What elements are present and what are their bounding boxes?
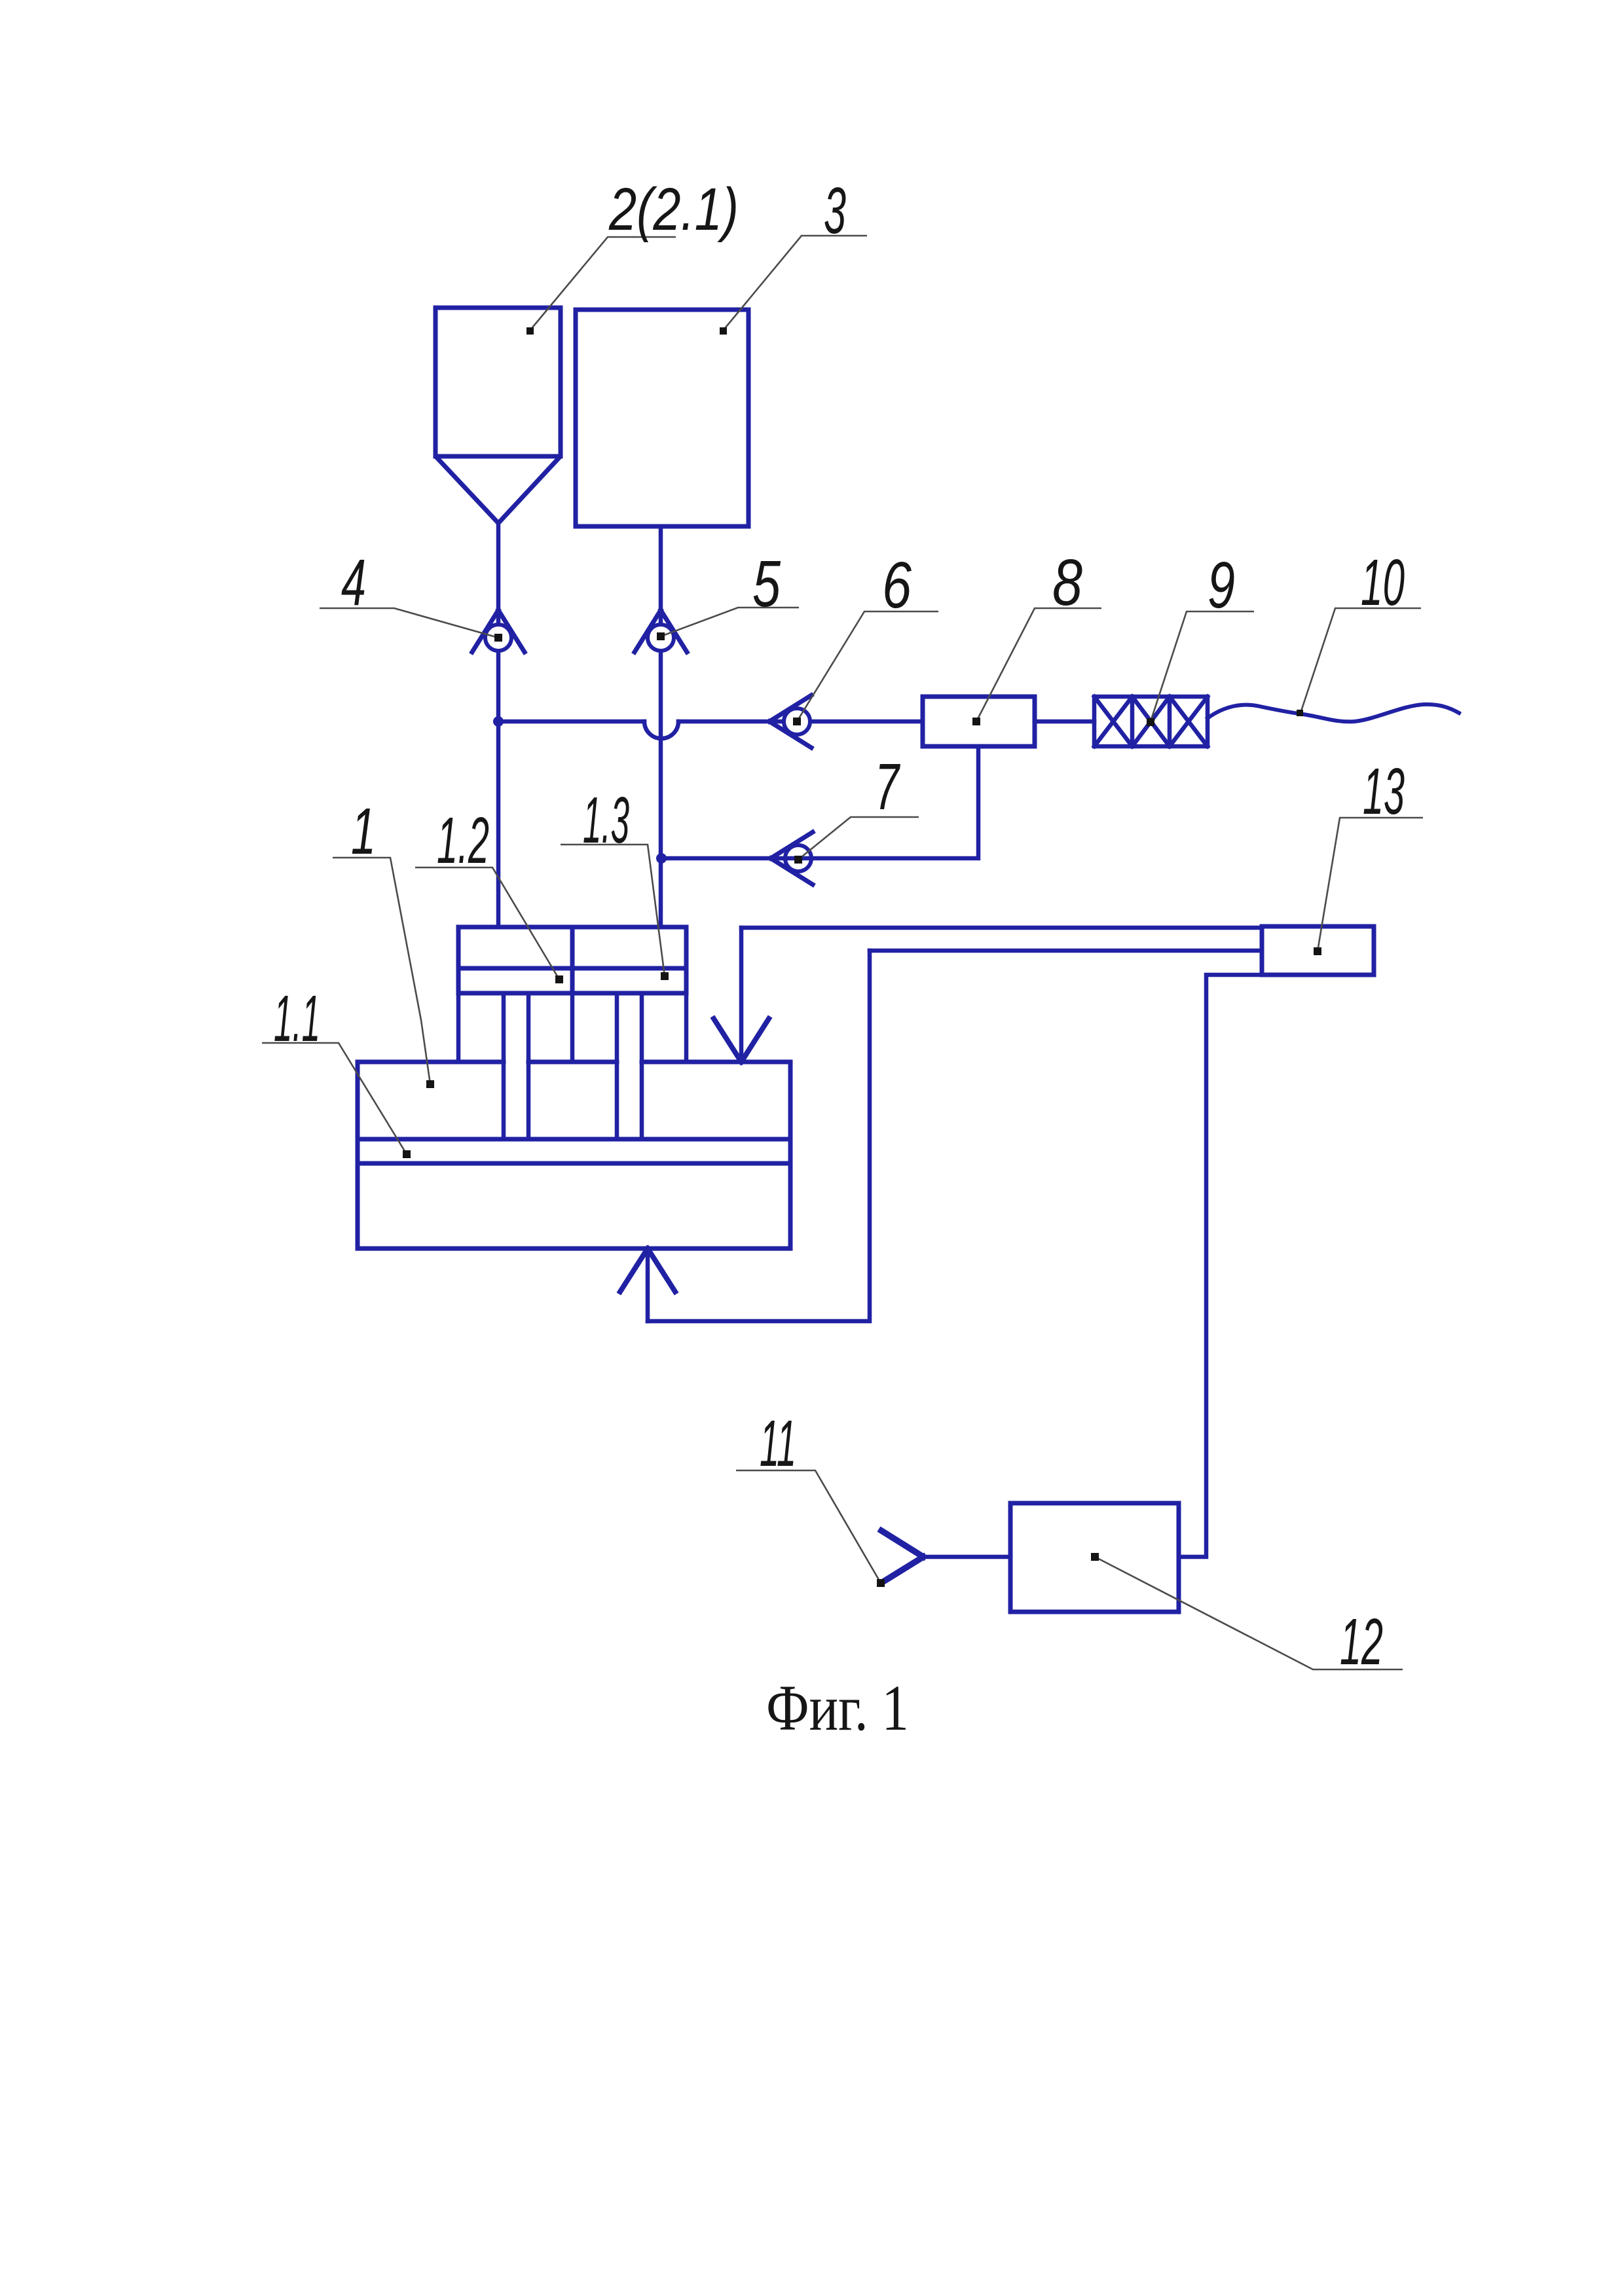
chamber walls	[458, 993, 686, 1062]
defs	[358, 308, 1459, 1612]
svg-text:12: 12	[1340, 1605, 1383, 1679]
leader 2	[530, 237, 676, 331]
leader 9	[1151, 611, 1254, 721]
wire hop over vertical line	[644, 721, 678, 738]
leader 1.3	[561, 845, 665, 976]
svg-text:7: 7	[875, 750, 900, 824]
leader 1.1	[262, 1043, 407, 1154]
piston rod left	[504, 993, 528, 1139]
leader 7	[798, 817, 919, 860]
check valve 4	[472, 610, 525, 652]
svg-text:1.2: 1.2	[437, 804, 489, 877]
check valve 7	[771, 832, 813, 884]
svg-text:Фиг. 1: Фиг. 1	[766, 1671, 909, 1744]
leader 5	[661, 608, 799, 636]
wire	[678, 720, 923, 724]
svg-text:11: 11	[760, 1407, 796, 1480]
svg-text:3: 3	[824, 174, 846, 247]
wire: pump 12 suction line	[923, 1555, 1010, 1559]
check valve 6	[769, 695, 811, 748]
svg-text:2(2.1): 2(2.1)	[608, 176, 739, 243]
flexible line 10 (wavy hose)	[1208, 704, 1459, 721]
wire: top control line to unit 13	[741, 926, 1262, 930]
leader 3	[723, 236, 867, 331]
leader 13	[1318, 818, 1423, 951]
arrowhead down	[714, 1019, 769, 1062]
check valve 5	[635, 610, 687, 652]
wire: hopper outlet down to dispenser left inlet	[496, 523, 501, 927]
wire: unit 8 to filter 9	[1035, 720, 1094, 724]
leader end dots (black squares)	[403, 327, 1321, 1587]
unit 8 (metering box)	[923, 697, 1035, 746]
svg-text:9: 9	[1208, 549, 1235, 622]
leader lines	[262, 236, 1423, 1669]
leader 4	[320, 608, 498, 638]
tank 3	[576, 310, 748, 526]
node A (junction dot)	[493, 716, 504, 727]
svg-text:13: 13	[1363, 755, 1405, 828]
pump 12	[1010, 1503, 1179, 1612]
svg-text:5: 5	[752, 547, 781, 621]
leader 8	[976, 608, 1101, 721]
svg-text:10: 10	[1361, 546, 1405, 619]
wire: unit 13 down to pump 12	[1179, 975, 1262, 1557]
svg-text:4: 4	[341, 546, 366, 619]
leader 1	[333, 858, 430, 1084]
piston rod right	[617, 993, 642, 1139]
wire: lower control loop	[648, 951, 870, 1321]
leader 11	[736, 1470, 881, 1583]
svg-text:1.1: 1.1	[274, 982, 320, 1055]
reference labels	[274, 174, 1405, 1679]
hopper 2 (tank with funnel)	[435, 308, 561, 456]
svg-text:1: 1	[351, 795, 376, 868]
leader 1.2	[415, 867, 559, 979]
control line with down arrow into press	[739, 928, 744, 1062]
wire: middle control line to unit 13	[870, 949, 1262, 953]
svg-text:1.3: 1.3	[583, 784, 629, 857]
wire: tank 3 outlet down to dispenser right inlet	[659, 526, 663, 927]
filter 9 (crossed box)	[1094, 697, 1208, 746]
leader 12	[1095, 1557, 1403, 1669]
press body 1.1 (lower block)	[358, 1060, 790, 1065]
leader 10	[1301, 608, 1421, 713]
wire: main horizontal line from junction A to unit 8	[498, 720, 644, 724]
dispenser 1 upper block (sections 1.2 / 1.3)	[458, 927, 686, 993]
svg-text:8: 8	[1052, 546, 1082, 619]
node B (junction dot on line to valve 7)	[656, 853, 667, 864]
arrowhead up	[620, 1248, 675, 1292]
wire: unit 8 down and left to valve 7	[661, 746, 978, 858]
hopper 2 funnel	[437, 458, 559, 523]
unit 13 (control box)	[1262, 926, 1374, 975]
svg-text:6: 6	[882, 549, 912, 622]
air intake 11 (open V)	[881, 1531, 923, 1582]
up arrow into press bottom	[646, 1248, 650, 1321]
leader 6	[797, 611, 938, 721]
